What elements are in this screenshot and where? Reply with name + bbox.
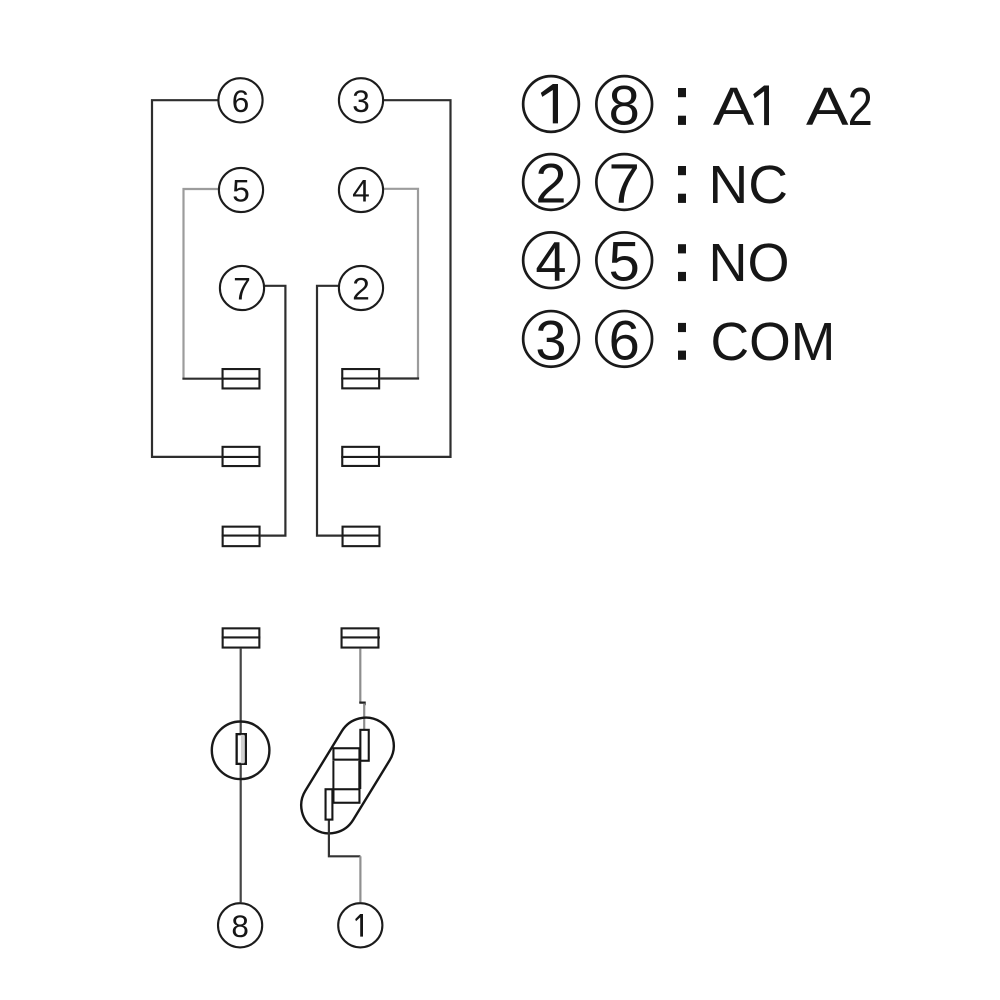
svg-text:NC: NC <box>709 156 789 215</box>
svg-text:3: 3 <box>352 83 370 119</box>
pin 8 <box>218 903 262 947</box>
wire pin7 to terminal L3 <box>261 286 286 536</box>
wire jog <box>359 703 364 706</box>
wire armature to corner <box>329 821 361 857</box>
pin 6 <box>218 78 262 122</box>
legend row4 circle 6 <box>596 308 652 371</box>
legend row4 circle 3 <box>523 308 579 371</box>
svg-text:7: 7 <box>233 271 251 307</box>
armature bottom pin rect <box>326 789 333 819</box>
wire jog to armature (gray) <box>363 704 365 730</box>
svg-text:3: 3 <box>535 308 566 371</box>
terminal BL (coil A2 side) <box>222 628 261 647</box>
wire pin3 to terminal R2 <box>380 100 451 457</box>
svg-text:5: 5 <box>232 173 250 209</box>
legend row2 colon <box>678 166 686 203</box>
terminal L3 <box>222 527 261 547</box>
terminal R2 <box>341 447 380 466</box>
armature top horizontal plate <box>333 748 359 759</box>
wire pin6 to terminal L2 <box>152 100 222 457</box>
legend row1 circle 8 <box>596 73 652 136</box>
terminal R1 <box>341 369 380 388</box>
pin 4 <box>339 168 383 212</box>
terminal BR (coil A1 side) <box>341 628 380 647</box>
legend row4 colon <box>678 323 686 360</box>
pin 5 <box>219 168 263 212</box>
wire BL terminal to pin8 through coil <box>240 649 242 903</box>
terminal L2 <box>222 447 261 466</box>
svg-text:2: 2 <box>848 78 873 137</box>
pin 7 <box>220 266 264 310</box>
legend row3 circle 4 <box>523 230 579 293</box>
svg-text:6: 6 <box>609 308 640 371</box>
armature top pin rect <box>360 730 368 761</box>
legend row1 colon <box>678 88 686 125</box>
terminal L1 <box>222 369 261 388</box>
legend row1 circle 1 <box>523 76 579 132</box>
pin 3 <box>339 78 383 122</box>
armature left link line <box>332 761 334 789</box>
svg-text:2: 2 <box>352 271 370 307</box>
armature bottom horizontal plate <box>333 789 359 803</box>
armature right link line <box>358 761 361 789</box>
pin 1 <box>338 903 382 947</box>
legend row3 circle 5 <box>596 230 652 293</box>
svg-text:5: 5 <box>609 230 640 293</box>
svg-text:7: 7 <box>609 151 640 214</box>
svg-text:4: 4 <box>535 230 566 293</box>
legend row2 circle 7 <box>596 151 652 214</box>
svg-text:NO: NO <box>709 234 790 293</box>
svg-text:4: 4 <box>352 173 370 209</box>
svg-text:A: A <box>713 78 755 137</box>
coil inner gray bar <box>241 735 244 764</box>
wire pin5 vertical (gray) <box>184 189 219 379</box>
terminal R3 <box>342 527 381 547</box>
svg-text:6: 6 <box>232 83 250 119</box>
wire BR terminal down (gray) <box>359 649 361 703</box>
pin 2 <box>339 266 383 310</box>
svg-text:2: 2 <box>535 151 566 214</box>
svg-text:8: 8 <box>609 73 640 136</box>
svg-text:COM: COM <box>711 313 836 372</box>
svg-text:8: 8 <box>231 908 249 944</box>
wire pin4 into terminal R1 <box>380 377 419 379</box>
coil circle K1 <box>212 722 270 780</box>
wire pin4 vertical (gray) <box>384 189 419 379</box>
relay armature stadium outline <box>291 707 405 844</box>
wire pin5 into terminal L1 <box>182 378 221 380</box>
wire corner to pin1 (gray) <box>359 856 361 902</box>
coil element rectangle <box>237 734 246 764</box>
legend row3 colon <box>678 244 686 281</box>
wire pin2 to terminal R3 <box>317 286 342 536</box>
legend row2 circle 2 <box>523 151 579 214</box>
svg-text:A: A <box>806 78 849 137</box>
